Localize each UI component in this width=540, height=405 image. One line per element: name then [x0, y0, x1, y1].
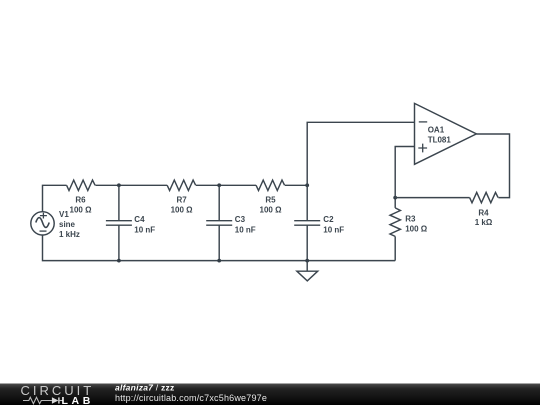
svg-text:100 Ω: 100 Ω [405, 224, 428, 233]
svg-text:C2: C2 [323, 215, 334, 224]
ground [297, 261, 318, 281]
wire C2 to bottom rail [306, 225, 308, 260]
svg-text:V1: V1 [59, 210, 69, 219]
svg-text:OA1: OA1 [428, 126, 445, 135]
capacitor C2 [294, 221, 320, 226]
svg-text:C4: C4 [134, 215, 145, 224]
svg-text:LAB: LAB [62, 395, 94, 405]
svg-text:R3: R3 [405, 215, 416, 224]
wire R3 to node D [394, 198, 396, 208]
svg-text:100 Ω: 100 Ω [260, 206, 283, 215]
op-amp OA1 [415, 103, 477, 164]
wire R7 to R5 [196, 184, 256, 186]
svg-text:R6: R6 [75, 196, 86, 205]
svg-text:sine: sine [59, 220, 76, 229]
junction node B [217, 183, 221, 187]
footer bar [0, 383, 540, 405]
junction C4 bottom node [117, 259, 121, 263]
junction node D [393, 196, 397, 200]
svg-text:100 Ω: 100 Ω [70, 206, 93, 215]
junction node A [117, 183, 121, 187]
capacitor C4 [106, 221, 132, 226]
wire node A to C4 [118, 185, 120, 220]
svg-text:100 Ω: 100 Ω [171, 206, 194, 215]
voltage source V1 [31, 212, 54, 235]
wire V1 bottom and bottom rail [43, 234, 396, 260]
svg-text:1 kΩ: 1 kΩ [475, 218, 493, 227]
svg-text:alfaniza7 / zzz: alfaniza7 / zzz [115, 383, 175, 393]
svg-text:C3: C3 [235, 215, 246, 224]
wire node C to C2 [306, 185, 308, 220]
junction node C [305, 183, 309, 187]
resistor R5 [256, 180, 285, 190]
junction C3 bottom node [217, 259, 221, 263]
svg-text:10 nF: 10 nF [235, 225, 256, 234]
resistor R3 [390, 208, 400, 236]
wire R5 to node C [285, 184, 307, 186]
resistor R6 [67, 180, 95, 190]
svg-text:R4: R4 [478, 209, 489, 218]
wire node C to op-amp inverting input [307, 122, 414, 185]
CircuitLab logo [21, 383, 95, 405]
wire node D to R4 [395, 197, 469, 199]
junction ground node [305, 259, 309, 263]
wire C4 to bottom rail [118, 225, 120, 260]
wire bottom rail to R3 [394, 236, 396, 260]
wire V1 top to R6 [43, 185, 67, 211]
resistor R4 [470, 192, 499, 202]
capacitor C3 [206, 221, 232, 226]
svg-text:10 nF: 10 nF [134, 225, 155, 234]
resistor R7 [167, 180, 195, 190]
svg-text:1 kHz: 1 kHz [59, 230, 80, 239]
wire node B to C3 [218, 185, 220, 220]
wire C3 to bottom rail [218, 225, 220, 260]
svg-text:R5: R5 [265, 196, 276, 205]
svg-text:R7: R7 [176, 196, 187, 205]
wire R4 to op-amp output [476, 134, 509, 198]
svg-text:TL081: TL081 [428, 135, 452, 144]
wire node D to op-amp non-inverting input [395, 147, 414, 198]
svg-text:10 nF: 10 nF [323, 225, 344, 234]
svg-text:http://circuitlab.com/c7xc5h6w: http://circuitlab.com/c7xc5h6we797e [115, 393, 267, 403]
wire R6 to R7 [95, 184, 167, 186]
